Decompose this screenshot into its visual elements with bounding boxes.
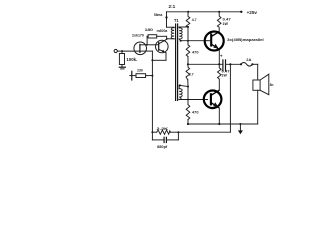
terminal +25v	[240, 11, 242, 13]
resistor 0.47 1W lower	[218, 64, 222, 90]
node feedback tap	[229, 63, 231, 65]
wire feedback down	[229, 64, 231, 132]
svg-text:0.47: 0.47	[223, 18, 231, 22]
resistor 470 upper	[186, 45, 190, 57]
node sec1 top	[187, 26, 189, 28]
resistor 2.7	[186, 64, 190, 80]
transistor Q4 output lower	[204, 91, 222, 109]
svg-text:4.7: 4.7	[192, 18, 197, 22]
wire input to gate	[117, 50, 140, 52]
svg-text:8n: 8n	[270, 83, 274, 87]
wire feedback vertical	[151, 60, 153, 132]
wire feedback to output	[178, 131, 230, 133]
primary winding	[167, 26, 175, 28]
wire bottom rail	[188, 123, 258, 125]
wire node B down	[187, 87, 189, 105]
svg-text:m600a: m600a	[157, 29, 169, 33]
node emitter/source join	[151, 59, 153, 61]
wire speaker return	[257, 90, 259, 124]
svg-text:3x(40B)maparallel: 3x(40B)maparallel	[227, 38, 264, 42]
wire driver emitter L	[165, 53, 167, 60]
node sec1 bottom	[180, 40, 182, 42]
svg-text:2sk170: 2sk170	[132, 33, 144, 37]
svg-text:1W: 1W	[222, 74, 228, 78]
svg-text:100k.: 100k.	[126, 57, 137, 62]
svg-text:T1: T1	[174, 18, 179, 23]
input terminal J1	[114, 49, 117, 52]
secondary winding 1	[179, 28, 182, 39]
node 470/2.7/output	[187, 63, 189, 65]
node B sec2	[187, 86, 189, 88]
node supply/0.47	[218, 11, 220, 13]
capacitor C1 plate	[131, 71, 133, 80]
svg-text:470: 470	[192, 110, 199, 114]
svg-text:2:1: 2:1	[169, 4, 177, 9]
capacitor 680pf	[151, 132, 153, 140]
svg-text:2A: 2A	[246, 57, 251, 62]
node supply/4.7	[187, 11, 189, 13]
node input junction	[121, 50, 123, 52]
secondary winding 2	[179, 89, 182, 100]
wire base Q3	[181, 40, 207, 42]
svg-text:1W: 1W	[223, 22, 229, 26]
wire source down	[151, 51, 153, 60]
wire sec2 bottom to base	[178, 98, 180, 100]
node sec2 bottom / base Q4	[187, 99, 189, 101]
svg-text:2.7: 2.7	[189, 72, 194, 76]
svg-text:680pf: 680pf	[157, 145, 168, 149]
wire to speaker	[257, 64, 259, 80]
wire output node rail	[188, 63, 223, 65]
node emitter rail	[218, 123, 220, 125]
resistor 100k	[121, 51, 123, 53]
svg-text:58ma: 58ma	[154, 13, 163, 17]
node feedback right	[177, 131, 179, 133]
resistor 0.47 1W upper	[217, 12, 221, 32]
wire Q3 emitter to output node	[218, 50, 220, 65]
wire drain to driver base	[146, 44, 158, 46]
ground	[121, 65, 123, 68]
svg-text:+25v: +25v	[247, 10, 258, 15]
ground arrow	[239, 123, 241, 125]
svg-text:230: 230	[137, 69, 143, 73]
svg-text:180: 180	[145, 27, 154, 32]
wire top supply rail	[167, 11, 242, 13]
resistor 470 lower	[186, 105, 190, 120]
node 230 junction	[151, 75, 153, 77]
node sec2 top	[179, 84, 181, 86]
wire supply down to primary	[166, 12, 168, 27]
core	[175, 24, 177, 100]
wire 4.7 to base node	[187, 27, 189, 45]
node rail left	[187, 123, 189, 125]
speaker LS1	[253, 80, 260, 90]
node output	[218, 63, 220, 65]
svg-text:470: 470	[192, 51, 199, 55]
wire Q4 emitter to rail	[218, 108, 220, 124]
resistor 4.7	[186, 12, 190, 27]
node base Q3	[187, 40, 189, 42]
node drain/180	[146, 44, 148, 46]
transistor Q3 output upper	[205, 32, 224, 51]
svg-text:+: +	[220, 54, 223, 59]
